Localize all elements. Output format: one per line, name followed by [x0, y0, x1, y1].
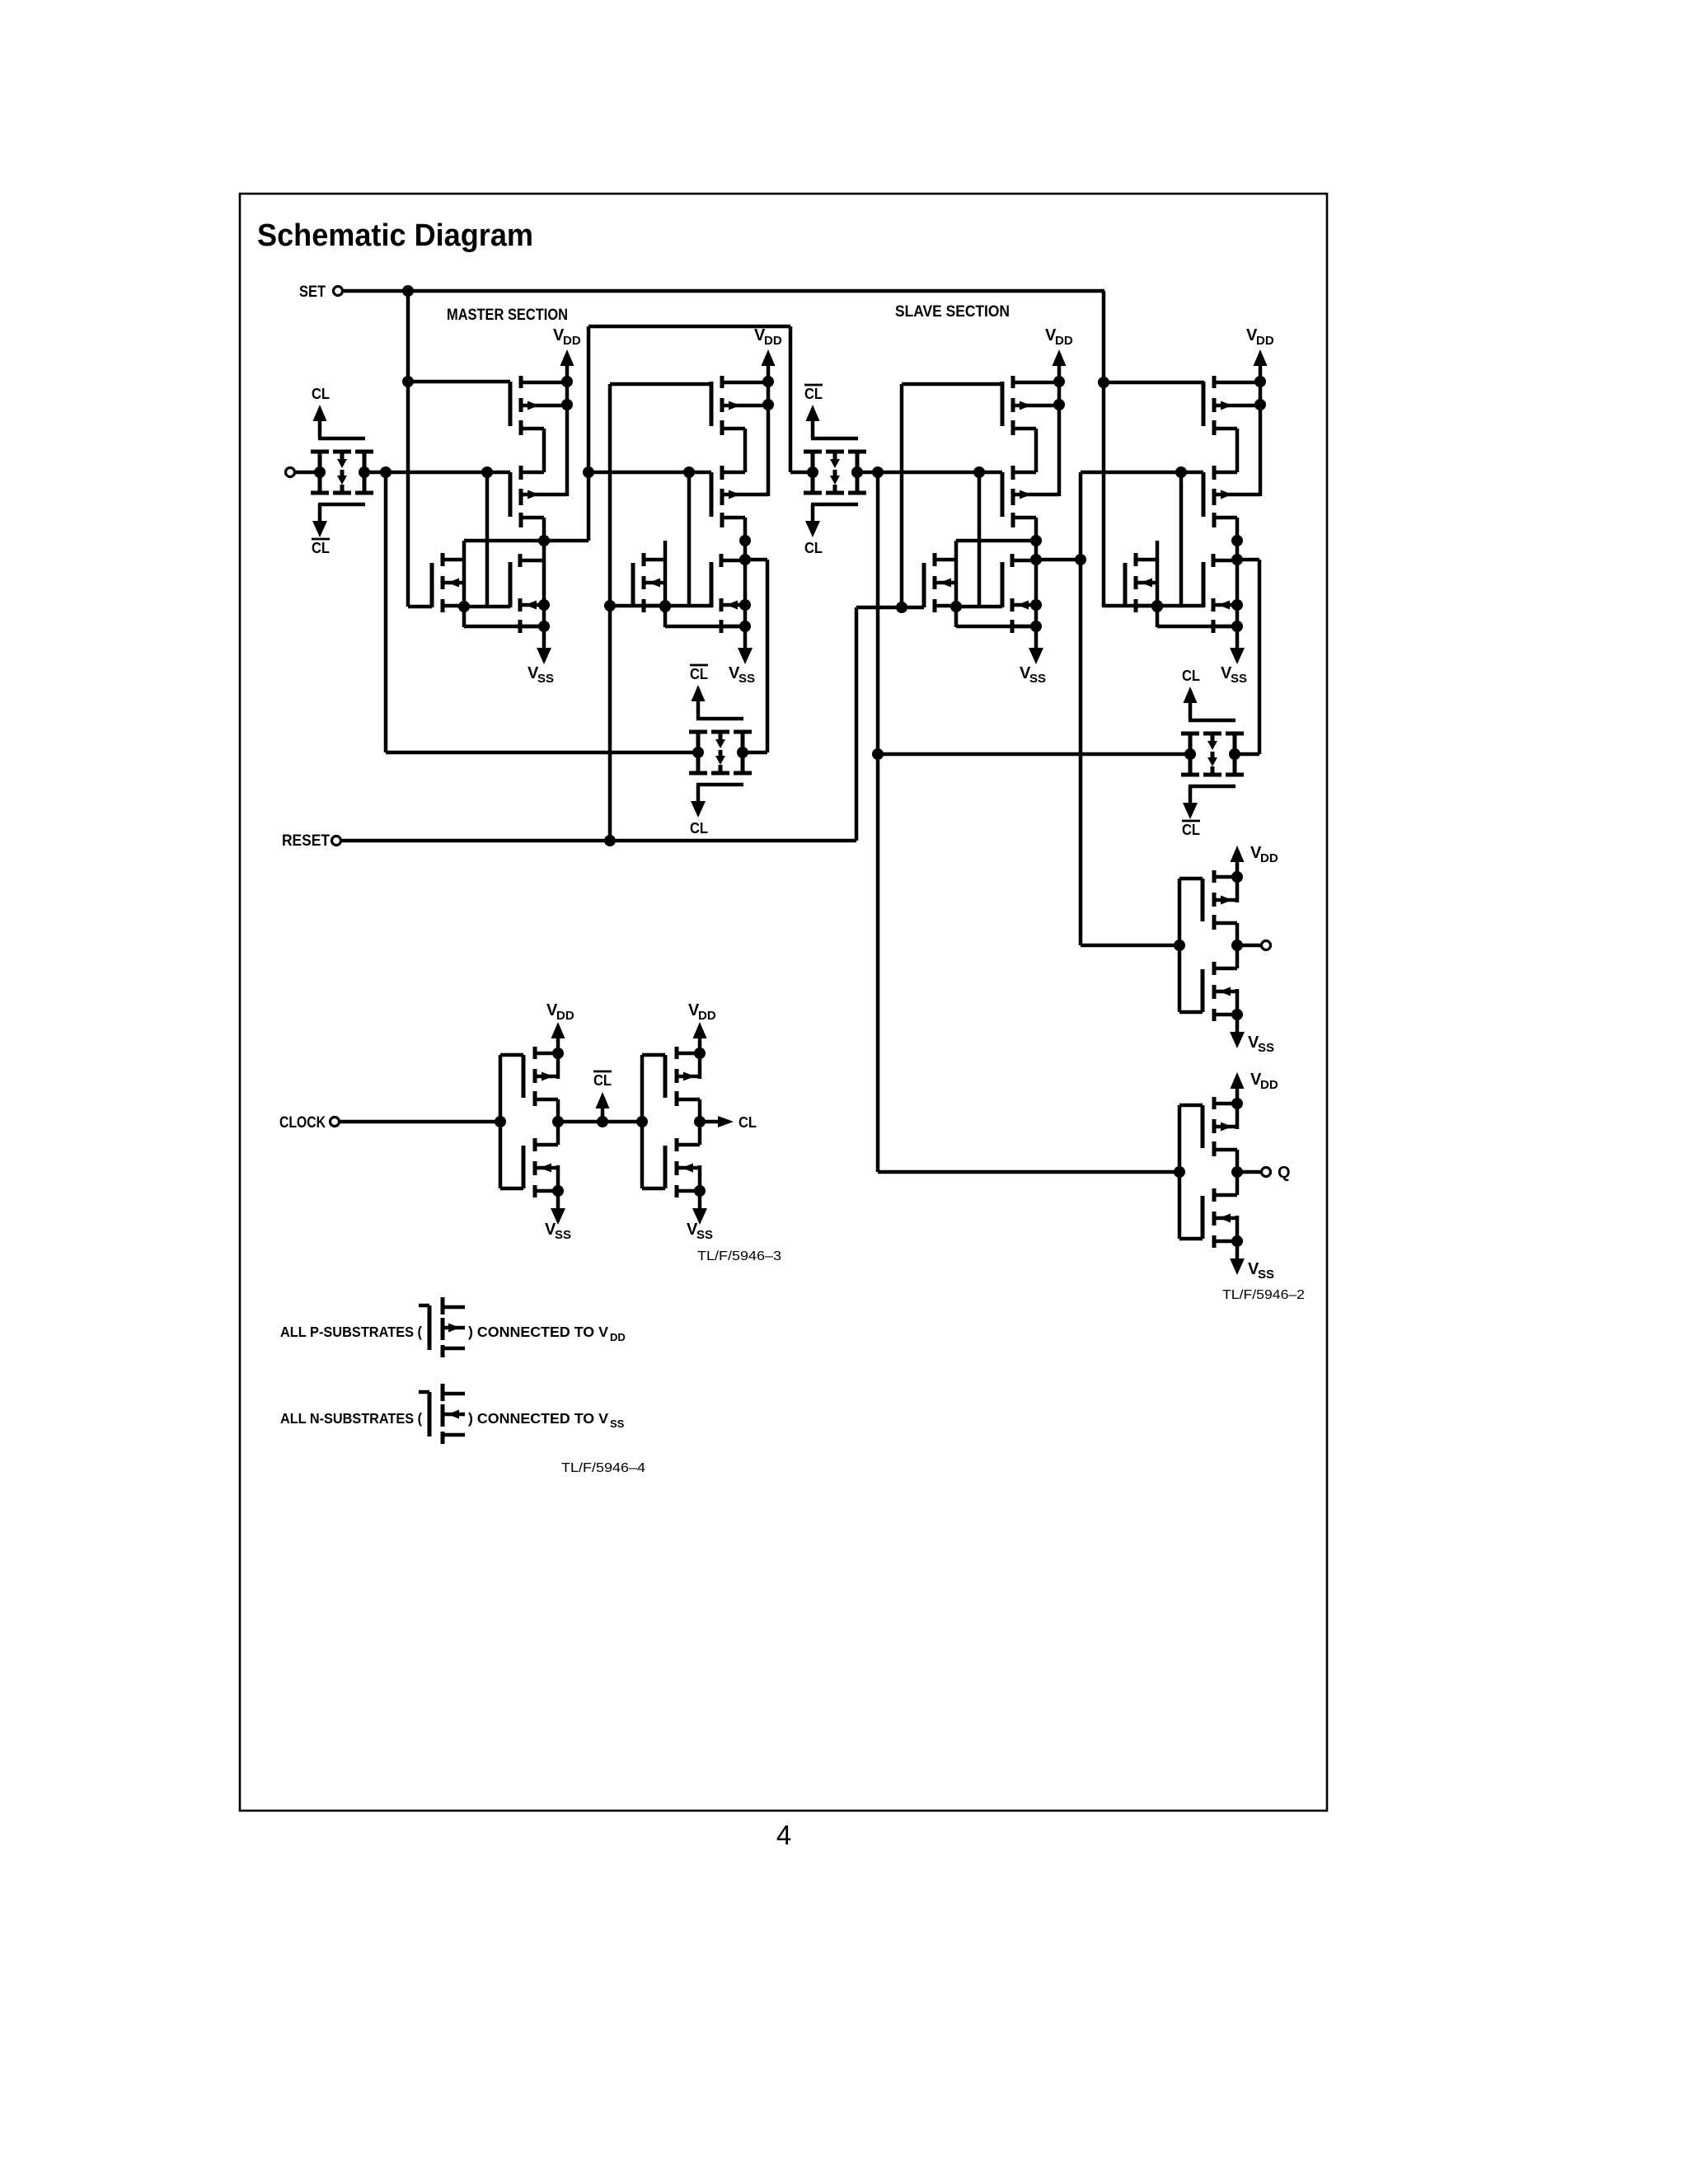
svg-text:CL: CL	[312, 386, 330, 402]
svg-text:TL/F/5946–3: TL/F/5946–3	[697, 1249, 781, 1263]
svg-text:DD: DD	[1260, 851, 1278, 865]
svg-text:ALL P-SUBSTRATES (: ALL P-SUBSTRATES (	[280, 1324, 422, 1340]
svg-text:DD: DD	[764, 334, 782, 348]
svg-text:DD: DD	[698, 1009, 716, 1023]
svg-text:DD: DD	[1256, 334, 1274, 348]
svg-text:SS: SS	[1258, 1041, 1274, 1055]
svg-text:CL: CL	[593, 1072, 612, 1089]
svg-text:DD: DD	[563, 334, 581, 348]
svg-text:SLAVE SECTION: SLAVE SECTION	[895, 303, 1010, 321]
svg-text:ALL N-SUBSTRATES (: ALL N-SUBSTRATES (	[280, 1410, 422, 1427]
svg-text:SS: SS	[1258, 1268, 1274, 1282]
svg-text:SET: SET	[299, 284, 326, 301]
svg-text:DD: DD	[1055, 334, 1073, 348]
svg-text:TL/F/5946–2: TL/F/5946–2	[1222, 1288, 1305, 1302]
svg-text:Q: Q	[1278, 1164, 1291, 1182]
svg-text:SS: SS	[537, 672, 554, 686]
svg-text:CLOCK: CLOCK	[279, 1114, 326, 1132]
svg-text:CL: CL	[804, 386, 823, 402]
svg-text:DD: DD	[610, 1331, 626, 1343]
svg-text:SS: SS	[696, 1228, 713, 1242]
svg-text:CL: CL	[690, 820, 708, 837]
svg-text:CL: CL	[1182, 822, 1200, 838]
svg-text:TL/F/5946–4: TL/F/5946–4	[561, 1461, 645, 1475]
svg-text:SS: SS	[738, 672, 755, 686]
svg-text:CL: CL	[312, 540, 330, 556]
svg-text:4: 4	[776, 1820, 791, 1850]
svg-text:CL: CL	[738, 1114, 757, 1131]
svg-text:RESET: RESET	[282, 832, 330, 850]
svg-text:SS: SS	[610, 1418, 625, 1430]
svg-text:Schematic Diagram: Schematic Diagram	[257, 218, 533, 253]
svg-text:DD: DD	[1260, 1078, 1278, 1092]
svg-text:MASTER SECTION: MASTER SECTION	[447, 307, 568, 324]
svg-text:DD: DD	[556, 1009, 574, 1023]
svg-text:CL: CL	[804, 540, 823, 556]
svg-text:) CONNECTED TO V: ) CONNECTED TO V	[468, 1410, 608, 1427]
svg-text:) CONNECTED TO V: ) CONNECTED TO V	[468, 1324, 608, 1340]
svg-text:SS: SS	[555, 1228, 571, 1242]
svg-text:CL: CL	[1182, 668, 1200, 684]
svg-text:CL: CL	[690, 666, 708, 682]
svg-text:SS: SS	[1231, 672, 1247, 686]
svg-text:SS: SS	[1029, 672, 1046, 686]
